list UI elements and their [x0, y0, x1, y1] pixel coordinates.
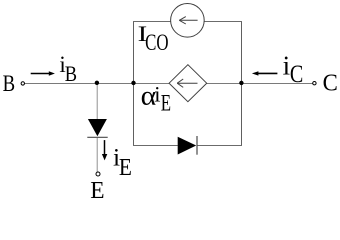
label i_B	[59, 52, 77, 86]
junction node at base/emitter branch	[95, 81, 99, 85]
label alpha i_E	[141, 80, 171, 115]
label i_C	[283, 51, 304, 88]
arrow for current i_B (pointing right)	[31, 71, 55, 76]
svg-text:i: i	[154, 82, 160, 107]
svg-text:CO: CO	[145, 30, 168, 56]
svg-text:E: E	[161, 91, 171, 116]
junction node at inner loop left	[131, 81, 135, 85]
wire: inner loop top left segment	[133, 21, 171, 23]
terminal B (open circle)	[21, 82, 24, 85]
arrow for current i_E (pointing down)	[102, 140, 107, 160]
junction node at inner loop right	[239, 81, 243, 85]
terminal C (open circle)	[313, 82, 316, 85]
wire: inner loop top right segment	[205, 21, 243, 23]
label i_E	[113, 143, 132, 181]
wire: emitter branch lower segment	[96, 138, 98, 172]
diode D1 emitter junction (anode top, cathode down)	[87, 119, 107, 137]
svg-text:E: E	[119, 155, 132, 181]
label I_CO	[138, 21, 169, 56]
wire: inner loop left vertical	[133, 21, 135, 146]
svg-text:E: E	[90, 177, 104, 201]
svg-text:B: B	[3, 70, 16, 96]
svg-text:B: B	[65, 61, 77, 86]
current source I_CO (circle with left-pointing arrow)	[171, 4, 205, 38]
svg-text:C: C	[290, 61, 303, 88]
arrow for current i_C (pointing left)	[252, 71, 278, 75]
wire: base lead from terminal B to diamond left vertex	[25, 83, 170, 85]
svg-text:C: C	[323, 71, 338, 97]
diode D2 collector junction (anode left, cathode right)	[178, 136, 197, 155]
dependent current source alpha*i_E (diamond with left-pointing arrow)	[169, 65, 207, 102]
wire: emitter branch upper segment	[96, 84, 98, 120]
terminal E (open circle)	[96, 172, 100, 176]
wire: inner loop bottom left segment	[133, 145, 178, 147]
wire: inner loop bottom right segment	[198, 145, 243, 147]
wire: inner loop right vertical	[241, 21, 243, 146]
wire: diamond right vertex to terminal C	[207, 83, 313, 85]
